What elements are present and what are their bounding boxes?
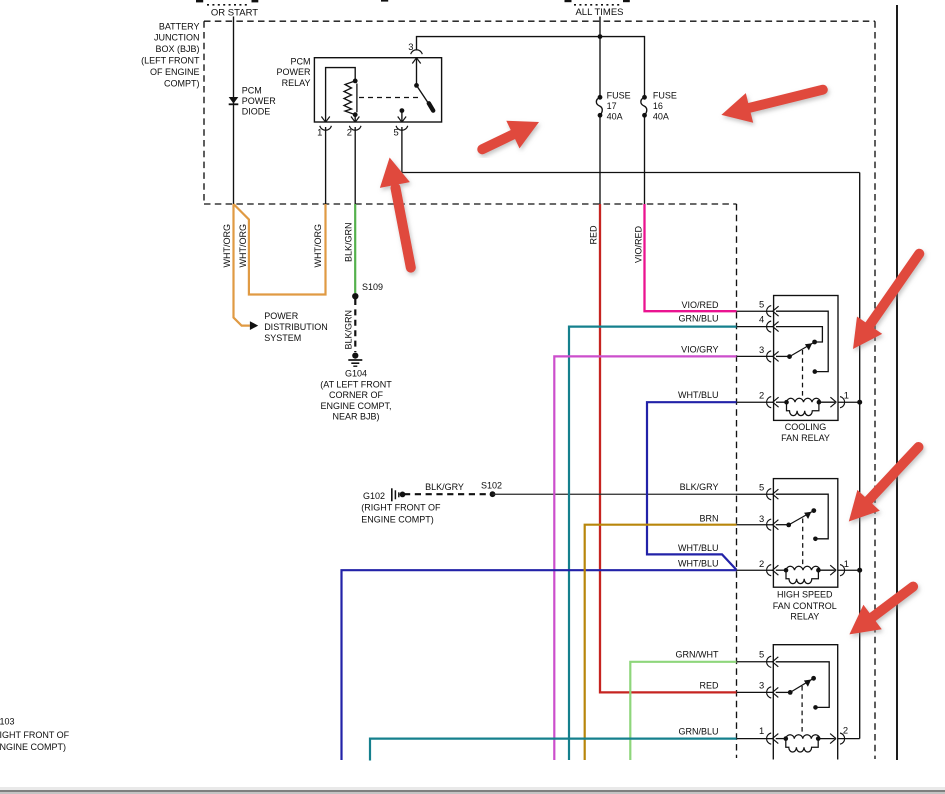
svg-text:G104: G104 [345, 368, 367, 378]
svg-text:ENGINE COMPT,: ENGINE COMPT, [320, 401, 391, 411]
junction node on feed rail [857, 400, 862, 405]
svg-text:PCM: PCM [242, 85, 262, 95]
wire coil bottom to pin2 [354, 115, 356, 122]
svg-text:WHT/BLU: WHT/BLU [678, 558, 719, 568]
svg-text:COOLING: COOLING [785, 422, 827, 432]
internal: pin5 to lower contact [776, 494, 828, 539]
coil winding [787, 398, 821, 415]
ground G104 [320, 353, 392, 422]
red annotation arrow 1 (pointing up at PCM relay pins) [380, 158, 411, 268]
wire PCM relay pin5 to fan relay feed rail [402, 127, 860, 173]
pin5 contact node [400, 108, 405, 113]
coil winding [786, 566, 820, 583]
G103 label (cut at left edge) [0, 716, 70, 752]
svg-text:WHT/ORG: WHT/ORG [238, 224, 248, 268]
svg-text:DIODE: DIODE [242, 106, 271, 116]
svg-text:WHT/ORG: WHT/ORG [313, 224, 323, 268]
dashed link [802, 519, 804, 565]
svg-text:S102: S102 [481, 480, 502, 490]
svg-text:RED: RED [588, 225, 598, 245]
svg-text:VIO/RED: VIO/RED [681, 300, 719, 310]
svg-text:GRN/BLU: GRN/BLU [678, 726, 718, 736]
svg-text:OF ENGINE: OF ENGINE [150, 67, 200, 77]
window status bar at bottom [0, 787, 945, 794]
wire PCM relay pin2 down to BJB edge [354, 127, 356, 204]
svg-text:SYSTEM: SYSTEM [264, 333, 301, 343]
svg-text:FAN CONTROL: FAN CONTROL [773, 601, 837, 611]
PCM power diode [229, 85, 277, 116]
svg-text:40A: 40A [653, 112, 669, 122]
ground G102 [361, 488, 441, 524]
svg-text:BLK/GRY: BLK/GRY [680, 482, 719, 492]
pin 3 terminal (top) [411, 50, 423, 64]
pin 1 terminal (bottom) [320, 117, 332, 131]
svg-text:5: 5 [759, 481, 764, 492]
svg-text:JUNCTION: JUNCTION [154, 33, 200, 43]
splice S109 [352, 293, 358, 299]
wire VIO/GRY to cooling fan relay pin3 [554, 356, 736, 760]
svg-text:NGINE COMPT): NGINE COMPT) [0, 742, 66, 752]
svg-text:WHT/ORG: WHT/ORG [222, 224, 232, 268]
pin stub wires [737, 662, 860, 739]
internal: pin5 to lower contact [776, 662, 830, 708]
svg-text:3: 3 [759, 344, 764, 355]
wire GRN/BLU (second, from off-page bottom) to relay3 pin1 [370, 739, 737, 761]
svg-text:GRN/WHT: GRN/WHT [676, 650, 719, 660]
svg-text:16: 16 [653, 101, 663, 111]
wire BLK/GRY from S102 to high speed fan control relay pin5 [493, 493, 737, 495]
wire branch to fuse 16 [417, 37, 645, 97]
dashed actuator link [359, 97, 422, 99]
wire BRN (from off-page bottom) to high speed relay pin3 [585, 525, 737, 760]
svg-text:PCM: PCM [291, 57, 311, 67]
svg-text:103: 103 [0, 716, 15, 726]
wire WHT/ORG from diode to power distribution [234, 204, 250, 326]
node junction at fuse feed [598, 34, 603, 39]
pin stub wires [737, 311, 860, 402]
svg-text:17: 17 [607, 101, 617, 111]
relay box (bottom edge cut off) [773, 645, 837, 760]
svg-text:FUSE: FUSE [607, 90, 631, 100]
svg-text:3: 3 [759, 513, 764, 524]
fan relay feed rail (vertical) [859, 173, 861, 739]
svg-text:3: 3 [759, 680, 764, 691]
svg-text:VIO/GRY: VIO/GRY [681, 344, 718, 354]
wire GRN/WHT (from off-page bottom) to relay3 pin5 [630, 662, 736, 760]
fuse 16 40A [641, 90, 677, 121]
svg-text:G102: G102 [363, 491, 385, 501]
svg-text:2: 2 [347, 127, 352, 138]
terminal connector symbols [767, 306, 845, 408]
pin 2 terminal (bottom) [349, 117, 361, 131]
svg-text:5: 5 [393, 127, 398, 138]
svg-text:2: 2 [843, 725, 848, 736]
power distribution system arrow [250, 311, 328, 343]
svg-text:40A: 40A [607, 112, 623, 122]
svg-text:5: 5 [759, 298, 764, 309]
svg-text:RED: RED [699, 681, 719, 691]
red annotation arrow 3 (pointing left at fuses) [721, 90, 822, 123]
svg-text:WHT/BLU: WHT/BLU [678, 543, 719, 553]
wire GRN/BLU (relay1 pin4 branch, from off-page bottom) [569, 327, 737, 760]
wire fuse 17 to BJB edge [599, 115, 601, 204]
right pin 1 [840, 397, 845, 408]
wire BLK/GRN (dashed) S109 to G104 [354, 299, 356, 352]
svg-text:VIO/RED: VIO/RED [633, 225, 643, 263]
switch common wire from pin3 [416, 58, 418, 85]
solid page border line (right) [896, 5, 898, 760]
svg-text:BLK/GRN: BLK/GRN [344, 310, 354, 350]
relay box [774, 296, 838, 421]
terminal connector symbols [767, 489, 845, 576]
svg-text:HIGH SPEED: HIGH SPEED [777, 590, 833, 600]
svg-text:OR START: OR START [211, 8, 258, 19]
wire WHT/BLU from cooling fan relay pin2 to high speed relay pin2 [647, 402, 737, 570]
svg-text:2: 2 [759, 390, 764, 401]
svg-text:(RIGHT FRONT OF: (RIGHT FRONT OF [361, 503, 441, 513]
pin stub wires [737, 494, 860, 570]
svg-text:BRN: BRN [699, 514, 718, 524]
svg-text:1: 1 [844, 390, 849, 401]
wire BLK/GRY (dashed) G102 to S102 [404, 493, 493, 495]
splice S102 [490, 491, 496, 497]
switch pivot node [414, 83, 419, 88]
svg-text:3: 3 [408, 41, 413, 52]
svg-text:BOX (BJB): BOX (BJB) [155, 44, 199, 54]
svg-text:GRN/BLU: GRN/BLU [678, 314, 718, 324]
svg-text:4: 4 [759, 314, 764, 325]
relay K1 PCM power relay [276, 41, 441, 137]
svg-text:RELAY: RELAY [282, 78, 311, 88]
red annotation arrow 2 (pointing up-right) [482, 121, 539, 150]
svg-text:BLK/GRY: BLK/GRY [425, 482, 464, 492]
BJB name label [141, 21, 200, 88]
internal wire pin1 to coil top [326, 68, 356, 122]
wire fuse 16 to BJB edge [644, 115, 646, 204]
svg-text:ENGINE COMPT): ENGINE COMPT) [361, 515, 434, 525]
svg-text:BATTERY: BATTERY [159, 21, 200, 31]
switch arm with pivot [776, 691, 791, 693]
svg-text:RELAY: RELAY [790, 611, 819, 621]
dashed link [801, 686, 803, 733]
wire VIO/RED from fuse 16 to cooling fan relay pin5 [645, 204, 737, 311]
svg-text:IGHT FRONT OF: IGHT FRONT OF [0, 730, 70, 740]
wire from hot-in-run feed down to PCM power diode [233, 17, 235, 205]
svg-text:CORNER OF: CORNER OF [329, 390, 384, 400]
svg-text:(LEFT FRONT: (LEFT FRONT [141, 56, 200, 66]
red annotation arrow 5 (pointing at high speed fan relay) [849, 447, 919, 522]
fuse 17 40A [596, 90, 630, 121]
svg-text:1: 1 [317, 127, 322, 138]
terminal connector symbols [767, 656, 845, 744]
wire WHT/BLU (second, from off-page bottom) [342, 570, 737, 760]
red annotation arrow 4 (pointing at cooling fan relay) [853, 254, 919, 349]
coil (PCM relay winding) [344, 81, 355, 115]
svg-text:5: 5 [759, 649, 764, 660]
red annotation arrow 6 (pointing at third relay) [849, 587, 913, 635]
svg-text:NEAR BJB): NEAR BJB) [332, 411, 379, 421]
wire WHT/ORG from PCM relay pin1 (U route) [234, 204, 326, 295]
svg-text:(AT LEFT FRONT: (AT LEFT FRONT [320, 379, 392, 389]
svg-text:WHT/BLU: WHT/BLU [678, 390, 719, 400]
svg-text:1: 1 [759, 725, 764, 736]
pin 5 terminal (bottom) [396, 117, 408, 131]
svg-text:FAN RELAY: FAN RELAY [781, 433, 830, 443]
wire BLK/GRN from PCM relay pin2 to S109 [354, 204, 356, 293]
internal: pin5 to lower contact [776, 311, 828, 371]
svg-text:COMPT): COMPT) [164, 78, 200, 88]
dashed link arm to coil [802, 350, 804, 397]
label box remnant (cut at top, above pin 3 feed) [381, 0, 388, 2]
svg-text:BLK/GRN: BLK/GRN [344, 222, 354, 262]
svg-text:2: 2 [759, 558, 764, 569]
relay box K2 [773, 479, 837, 588]
switch arm with pivot [776, 524, 789, 526]
wire PCM relay pin1 down to BJB edge [325, 127, 327, 204]
svg-text:POWER: POWER [242, 96, 277, 106]
svg-text:S109: S109 [362, 282, 383, 292]
internal: pin4 to switch arm tip [776, 327, 822, 342]
svg-text:DISTRIBUTION: DISTRIBUTION [264, 322, 328, 332]
coil winding [786, 735, 820, 752]
svg-text:POWER: POWER [264, 311, 299, 321]
svg-text:FUSE: FUSE [653, 90, 677, 100]
battery junction box (BJB) dashed outline [204, 21, 875, 759]
hot-at-all-times label box remnant (cut at top) [565, 0, 630, 18]
switch arm [417, 85, 430, 104]
switch arm with pivot [776, 355, 790, 357]
wire RED from fuse 17 to cooling fan relay 2 pin3 [600, 204, 737, 692]
svg-text:POWER: POWER [276, 67, 311, 77]
hot-in-run label box remnant (cut at top) [196, 0, 258, 19]
hot-at-all-times feed wire [599, 17, 601, 98]
junction node on feed rail [857, 568, 862, 573]
